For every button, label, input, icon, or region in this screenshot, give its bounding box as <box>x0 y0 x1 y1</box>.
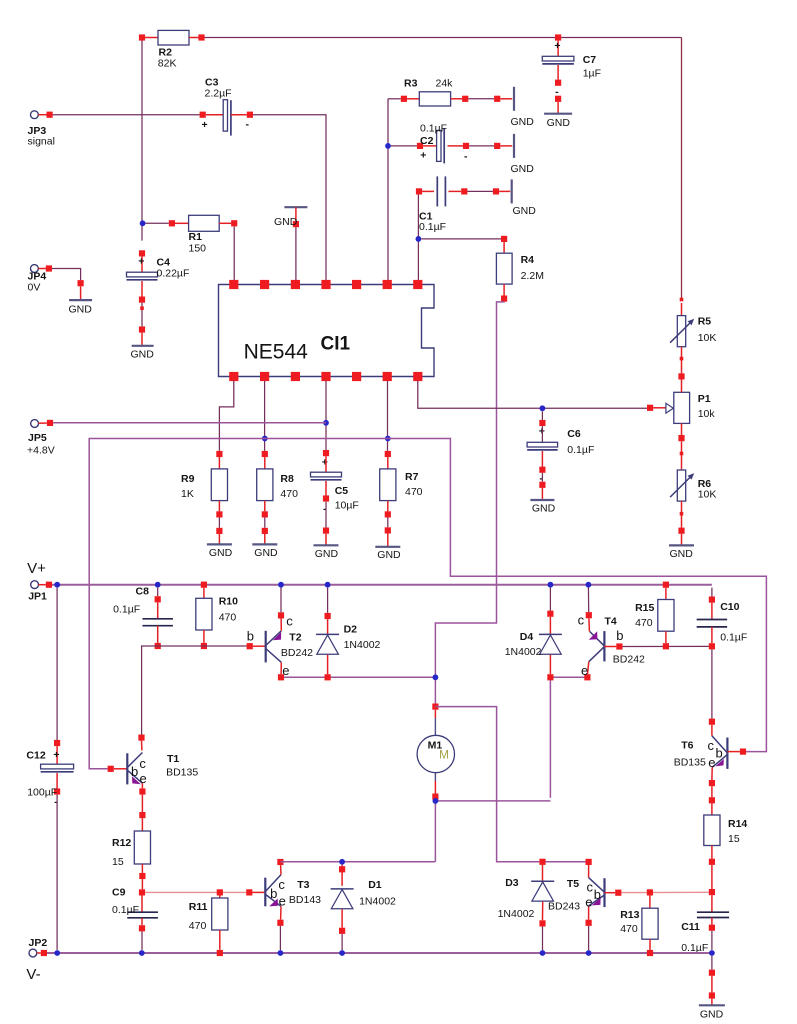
svg-text:GND: GND <box>131 349 155 361</box>
connector pin JP4 <box>31 265 39 273</box>
wire R2 left down to R1 node and C4 <box>141 41 143 241</box>
wire IC pin 1 to R9 <box>219 381 233 451</box>
svg-text:c: c <box>708 738 715 753</box>
svg-text:D1: D1 <box>368 879 382 891</box>
svg-text:1N4002: 1N4002 <box>498 908 535 920</box>
svg-text:C6: C6 <box>567 428 581 440</box>
svg-text:V-: V- <box>26 966 40 983</box>
svg-text:CI1: CI1 <box>321 334 351 355</box>
node R12 C9 junction <box>139 889 145 895</box>
svg-text:BD242: BD242 <box>613 654 645 666</box>
capacitor C7 1uF polarized <box>555 34 561 40</box>
diode D4 1N4002 <box>548 582 554 588</box>
svg-text:C8: C8 <box>136 586 150 598</box>
transistor T1 BD135 <box>108 766 114 772</box>
svg-text:24k: 24k <box>436 78 454 90</box>
resistor R14 15 <box>709 797 715 803</box>
capacitor C4 0.22uF polarized <box>139 250 145 256</box>
transistor T2 BD242 <box>247 643 253 649</box>
svg-text:1µF: 1µF <box>583 68 601 80</box>
svg-text:b: b <box>616 628 623 643</box>
diode D2 1N4002 <box>325 582 331 588</box>
svg-text:+: + <box>53 749 59 761</box>
wire IC pin 7 to potentiometer P1 wiper <box>418 381 647 409</box>
svg-text:T2: T2 <box>289 632 301 644</box>
svg-text:T6: T6 <box>681 740 693 752</box>
capacitor C6 0.1uF polarized <box>540 405 546 411</box>
ground symbol right of C2 <box>513 134 515 158</box>
svg-text:e: e <box>279 894 286 909</box>
svg-text:R11: R11 <box>189 901 208 913</box>
svg-text:T4: T4 <box>605 616 617 628</box>
ground symbol below R6 <box>669 544 694 546</box>
wire JP1 node down to C12 <box>56 588 58 740</box>
svg-text:+: + <box>554 40 560 52</box>
svg-text:C7: C7 <box>583 54 597 66</box>
svg-text:BD143: BD143 <box>289 894 321 906</box>
ground symbol right of C1 <box>511 179 513 203</box>
svg-text:signal: signal <box>28 136 55 148</box>
diode D1 1N4002 <box>339 859 345 865</box>
svg-text:470: 470 <box>189 920 207 932</box>
svg-text:1K: 1K <box>181 488 194 500</box>
wire IC pin 2 to R8 <box>264 381 266 451</box>
svg-text:T5: T5 <box>567 878 579 890</box>
transistor T4 BD242 <box>603 631 605 661</box>
svg-text:R1: R1 <box>189 231 203 243</box>
svg-text:C9: C9 <box>112 887 126 899</box>
svg-text:JP5: JP5 <box>28 432 47 444</box>
connector pin JP1 V+ <box>31 581 39 589</box>
svg-text:NE544: NE544 <box>244 341 309 364</box>
wire main top net R2-right to R5 column <box>202 37 682 39</box>
svg-text:+: + <box>202 119 208 131</box>
ground symbol below C4 <box>132 345 154 347</box>
wire T2 emitter row to motor top node <box>284 676 435 678</box>
svg-text:0.1µF: 0.1µF <box>113 604 140 616</box>
svg-text:0V: 0V <box>28 282 41 294</box>
wire T3 base row <box>145 891 246 893</box>
capacitor C2 0.1uF polarized <box>385 143 391 149</box>
svg-text:2.2M: 2.2M <box>521 270 544 282</box>
svg-text:BD243: BD243 <box>548 901 580 913</box>
svg-text:c: c <box>587 880 594 895</box>
svg-text:JP2: JP2 <box>29 937 48 949</box>
svg-text:0.1µF: 0.1µF <box>567 444 594 456</box>
svg-text:15: 15 <box>112 856 124 868</box>
svg-text:e: e <box>585 895 592 910</box>
svg-text:1N4002: 1N4002 <box>344 639 381 651</box>
wire T4 base row to R15 C10 <box>623 645 712 647</box>
svg-text:470: 470 <box>405 486 423 498</box>
trimmer resistor R6 10K <box>681 441 683 470</box>
capacitor C10 0.1uF <box>711 588 713 597</box>
ground symbol at JP4 <box>52 269 81 281</box>
svg-text:15: 15 <box>728 833 740 845</box>
svg-text:GND: GND <box>315 548 339 560</box>
resistor R4 2.2M <box>421 238 501 240</box>
wire IC pin 6 to R7 <box>387 381 389 451</box>
svg-text:0.22µF: 0.22µF <box>157 268 190 280</box>
motor M1 <box>432 704 438 710</box>
svg-text:GND: GND <box>274 216 298 228</box>
svg-text:R10: R10 <box>219 596 238 608</box>
capacitor C9 0.1uF <box>141 896 143 913</box>
svg-text:b: b <box>247 629 254 644</box>
svg-text:b: b <box>716 746 723 761</box>
svg-text:-: - <box>464 151 468 163</box>
wire D4 T4 emitter row <box>554 676 588 678</box>
wire JP3 to C3 <box>53 114 200 116</box>
svg-text:10K: 10K <box>698 489 717 501</box>
wire IC pin 4 to C5 <box>325 381 327 450</box>
wire motor bottom node up to D4 row <box>549 680 551 797</box>
svg-text:+: + <box>322 457 328 469</box>
trimmer resistor R5 10K <box>680 298 684 302</box>
svg-text:150: 150 <box>189 243 207 255</box>
ground symbol below C7 <box>544 113 572 115</box>
diode D3 1N4002 <box>539 859 545 865</box>
svg-text:R14: R14 <box>728 818 747 830</box>
connector pin JP3 <box>31 111 39 119</box>
svg-text:470: 470 <box>219 612 237 624</box>
svg-text:0.1µF: 0.1µF <box>112 904 139 916</box>
svg-text:e: e <box>282 663 289 678</box>
V+ rail from JP1 <box>49 584 712 586</box>
ground symbol below C11 rail <box>711 956 713 970</box>
svg-text:470: 470 <box>635 617 653 629</box>
svg-text:0.1µF: 0.1µF <box>420 123 447 135</box>
svg-text:0.1µF: 0.1µF <box>419 221 446 233</box>
svg-text:GND: GND <box>254 547 278 559</box>
transistor T5 BD243 <box>586 859 592 865</box>
svg-text:C5: C5 <box>335 485 349 497</box>
wire C3 to IC pin 4 <box>253 115 326 281</box>
svg-text:c: c <box>578 613 585 628</box>
svg-text:GND: GND <box>69 304 93 316</box>
svg-text:1N4002: 1N4002 <box>359 896 396 908</box>
svg-text:D4: D4 <box>520 631 534 643</box>
IC pin pads bottom row <box>229 372 238 381</box>
svg-text:C12: C12 <box>26 750 45 762</box>
svg-text:c: c <box>286 614 293 629</box>
svg-text:R13: R13 <box>620 909 639 921</box>
svg-text:C10: C10 <box>720 601 739 613</box>
svg-text:R15: R15 <box>635 602 654 614</box>
svg-text:D3: D3 <box>505 877 519 889</box>
svg-text:100µF: 100µF <box>27 787 57 799</box>
svg-text:GND: GND <box>377 549 401 561</box>
svg-text:10K: 10K <box>698 332 717 344</box>
svg-text:BD135: BD135 <box>166 767 198 779</box>
resistor R10 470 <box>201 582 207 588</box>
svg-text:470: 470 <box>620 923 638 935</box>
svg-text:b: b <box>594 887 601 902</box>
capacitor C5 10uF polarized <box>323 420 329 426</box>
transistor T3 BD143 <box>246 889 252 895</box>
svg-text:1N4002: 1N4002 <box>505 646 542 658</box>
svg-text:T3: T3 <box>297 879 309 891</box>
capacitor C11 0.1uF <box>711 895 713 912</box>
resistor R3 24k <box>388 98 401 100</box>
svg-text:GND: GND <box>547 117 571 129</box>
ground symbol below R7 <box>375 546 400 548</box>
resistor R12 15 <box>141 795 143 812</box>
ground symbol right of R3 <box>513 87 515 111</box>
svg-text:D2: D2 <box>344 624 358 636</box>
svg-text:e: e <box>708 755 715 770</box>
capacitor C3 2.2uF polarized <box>200 112 206 118</box>
resistor R9 1K <box>216 451 222 457</box>
svg-text:GND: GND <box>511 116 535 128</box>
svg-text:+: + <box>138 256 144 268</box>
svg-text:V+: V+ <box>27 560 46 577</box>
svg-text:GND: GND <box>511 163 535 175</box>
svg-text:c: c <box>278 877 285 892</box>
connector pin JP2 V- <box>29 949 37 957</box>
ground symbol below C5 <box>314 544 339 546</box>
wire R3 node down to IC pin 6 <box>387 99 389 280</box>
wire motor top node to D3 T5 row <box>435 707 539 862</box>
resistor R1 150 <box>140 220 146 226</box>
resistor R8 470 <box>262 436 268 442</box>
V- rail from JP2 <box>44 952 712 954</box>
svg-text:+: + <box>539 425 545 437</box>
svg-text:GND: GND <box>532 503 556 515</box>
svg-text:e: e <box>140 771 147 786</box>
transistor T6 BD135 <box>709 719 715 725</box>
wire D3 to T5 collector <box>546 861 586 863</box>
capacitor C12 100uF polarized <box>54 740 60 746</box>
svg-text:GND: GND <box>700 1009 724 1021</box>
ground symbol below C6 <box>530 499 554 501</box>
wire motor bottom node <box>434 800 436 862</box>
wire trimmer chain R5 P1 R6 <box>681 303 683 316</box>
wire R1 to IC pin 1 <box>233 226 235 280</box>
svg-text:R5: R5 <box>698 316 712 328</box>
wire motor bottom row to T3 D1 <box>280 861 435 863</box>
svg-text:P1: P1 <box>698 393 711 405</box>
svg-text:C11: C11 <box>681 921 700 933</box>
resistor R2 <box>139 34 145 40</box>
svg-text:GND: GND <box>513 205 537 217</box>
svg-text:C2: C2 <box>420 135 434 147</box>
potentiometer P1 10k <box>647 405 653 411</box>
connector pin JP5 <box>31 420 39 428</box>
wire C10 down to T6 collector <box>711 649 713 718</box>
ground symbol above IC pin 3 <box>284 206 307 208</box>
svg-text:0.1µF: 0.1µF <box>720 632 747 644</box>
svg-text:GND: GND <box>670 548 694 560</box>
svg-text:JP1: JP1 <box>28 591 47 603</box>
junction dots on V- rail <box>139 950 145 956</box>
svg-text:R8: R8 <box>280 473 294 485</box>
svg-text:GND: GND <box>209 547 233 559</box>
wire JP5 to IC pin 4 node <box>53 422 326 424</box>
resistor R15 470 <box>663 582 669 588</box>
wire base-drive net from T1/T6 bases to R8 R7 tops <box>89 439 766 769</box>
resistor R7 470 <box>385 436 391 442</box>
svg-text:-: - <box>246 119 250 131</box>
wire C8 R10 T2-base row and down to T1 collector <box>142 646 247 737</box>
wire C1 down to IC pin 7 <box>417 195 419 281</box>
svg-text:R9: R9 <box>181 473 195 485</box>
svg-text:2.2µF: 2.2µF <box>205 88 232 100</box>
ground symbol below R8 <box>252 543 277 545</box>
op-amp IC CI1 NE544 body <box>219 285 435 377</box>
svg-text:b: b <box>131 764 138 779</box>
svg-text:R7: R7 <box>405 471 419 483</box>
svg-text:82K: 82K <box>158 57 177 69</box>
svg-text:R3: R3 <box>404 78 418 90</box>
svg-text:10k: 10k <box>698 408 716 420</box>
svg-text:BD242: BD242 <box>281 647 313 659</box>
svg-text:R4: R4 <box>521 254 535 266</box>
svg-text:c: c <box>139 756 146 771</box>
wire GND to IC pin 3 <box>295 227 297 280</box>
svg-text:+: + <box>420 150 426 162</box>
svg-text:+4.8V: +4.8V <box>27 445 55 457</box>
capacitor C8 0.1uF <box>155 582 161 588</box>
IC pin pads top row <box>229 280 238 289</box>
svg-text:470: 470 <box>280 488 298 500</box>
svg-text:M: M <box>439 747 449 761</box>
svg-text:BD135: BD135 <box>674 757 706 769</box>
svg-text:R12: R12 <box>112 837 131 849</box>
wire T5 base row to R13 R14 <box>621 891 708 893</box>
ground symbol below R9 <box>207 543 232 545</box>
wire R4 bottom down to motor top node <box>435 302 504 704</box>
resistor R11 470 <box>217 889 223 895</box>
capacitor C1 0.1uF <box>416 188 422 194</box>
svg-text:e: e <box>581 663 588 678</box>
resistor R13 470 <box>647 889 653 895</box>
svg-text:10µF: 10µF <box>335 500 359 512</box>
svg-text:T1: T1 <box>167 753 179 765</box>
wire down to trimmer R5 <box>681 38 683 300</box>
svg-text:b: b <box>270 886 277 901</box>
